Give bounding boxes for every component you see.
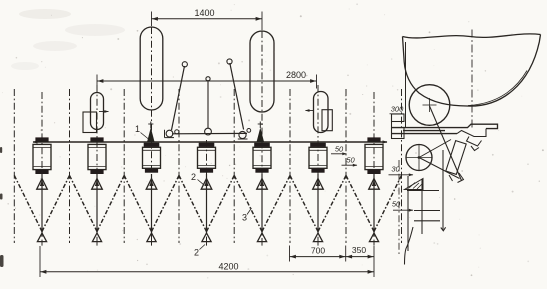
seeder unit 6: hopper cylinder (309, 143, 327, 173)
left lever pivot bracket (165, 130, 179, 138)
svg-text:2: 2 (191, 172, 196, 182)
side view: upper link (419, 140, 451, 158)
side view: coulter shanks (408, 150, 446, 251)
side view: seed hopper bowl (403, 34, 541, 106)
item label 3 (marker line) (242, 208, 252, 223)
middle lever (205, 77, 212, 135)
dimension 350 (346, 245, 374, 259)
side view: frame beam (392, 124, 498, 133)
row centre chain lines (42, 27, 374, 246)
seeder unit 7: press wheel mark triangle (369, 233, 378, 246)
svg-text:1400: 1400 (194, 8, 214, 18)
seeder unit 1: furrow opener triangle (37, 174, 48, 233)
svg-text:3: 3 (242, 213, 247, 223)
svg-text:4200: 4200 (218, 262, 238, 272)
svg-text:30: 30 (391, 165, 400, 174)
side view: lower link (419, 158, 460, 179)
svg-text:1: 1 (135, 124, 140, 134)
side view: slanted seed tube (446, 141, 466, 175)
dimension 30 (389, 165, 414, 177)
svg-text:50: 50 (335, 145, 344, 154)
item label 1 (135, 124, 149, 139)
zig-zag row marking dashed lines (14, 175, 401, 231)
seeder unit 5: press wheel mark triangle (257, 233, 266, 246)
small marker capsule above unit 2 (83, 93, 109, 133)
side view: bowl centre chain line (471, 30, 473, 131)
seeder unit 4: press wheel mark triangle (202, 233, 211, 246)
seeder unit 1: hopper cylinder (33, 137, 51, 174)
seeder unit 3: hopper cylinder (143, 143, 161, 173)
svg-text:50: 50 (392, 200, 401, 209)
seeder unit 3: furrow opener triangle (146, 174, 157, 233)
side view: furrow wedge (405, 179, 424, 190)
seeder unit 4: furrow opener triangle (201, 174, 212, 233)
svg-text:350: 350 (352, 245, 366, 255)
scan smudges left edge (0, 147, 4, 267)
seed boot on bar at x=150.8 (147, 122, 154, 142)
svg-text:2800: 2800 (286, 70, 306, 80)
seeder unit 2: furrow opener triangle (92, 174, 103, 233)
seeder unit 6: press wheel mark triangle (313, 233, 322, 246)
side view: boot hooks (449, 173, 464, 183)
seeder unit 5: hopper cylinder (253, 143, 271, 173)
svg-text:300: 300 (391, 105, 404, 114)
dimension 2800 (97, 70, 317, 89)
side view: soil profile curve (405, 227, 414, 265)
seeder unit 5: furrow opener triangle (257, 174, 268, 233)
dimension 50 (depth) (392, 200, 413, 212)
small marker capsule above unit 6 (305, 92, 332, 133)
tall marker tube above unit 5 (250, 31, 274, 112)
connecting link rod (172, 132, 247, 134)
svg-text:2: 2 (194, 248, 199, 258)
right lever pivot bracket (238, 129, 251, 140)
seeder unit 2: press wheel mark triangle (92, 233, 101, 246)
mid-row chain lines (14, 89, 401, 243)
seeder unit 1: press wheel mark triangle (37, 233, 46, 246)
seeder unit 4: hopper cylinder (198, 143, 216, 173)
dimension 1400 (152, 8, 263, 30)
toolbar frame bar (33, 140, 388, 143)
dimension 300 (390, 105, 405, 114)
side view: ground wheel (409, 85, 450, 126)
seed boot on bar at x=260.3 (257, 122, 264, 142)
dimension 4200 (40, 246, 374, 277)
side view: lower chain line (398, 160, 400, 256)
left control lever (172, 62, 188, 130)
seeder unit 2: hopper cylinder (88, 137, 106, 174)
seeder unit 7: furrow opener triangle (369, 174, 380, 233)
top-left scan haze (11, 9, 125, 70)
tall marker tube above unit 3 (140, 27, 163, 110)
side view: rear bracket (457, 129, 486, 151)
side view: support post (405, 42, 407, 127)
svg-text:700: 700 (311, 246, 325, 256)
svg-text:50: 50 (346, 156, 355, 165)
item label 2 (opener) (191, 172, 204, 185)
right control lever (227, 59, 244, 130)
dimension 700 (290, 246, 346, 262)
side view: main diagonal link (430, 106, 462, 181)
dimension 50 lower (row offset) (342, 156, 358, 167)
side view: hitch plate (392, 114, 405, 139)
side view: press wheel (406, 145, 433, 171)
side view: depth tines (407, 191, 440, 221)
seeder unit 3: press wheel mark triangle (147, 233, 156, 246)
seeder unit 7: hopper cylinder (365, 137, 383, 174)
dimension 50 upper (row offset) (331, 145, 347, 156)
item label 2 (press wheel) (194, 245, 205, 258)
seeder unit 6: furrow opener triangle (313, 174, 324, 233)
